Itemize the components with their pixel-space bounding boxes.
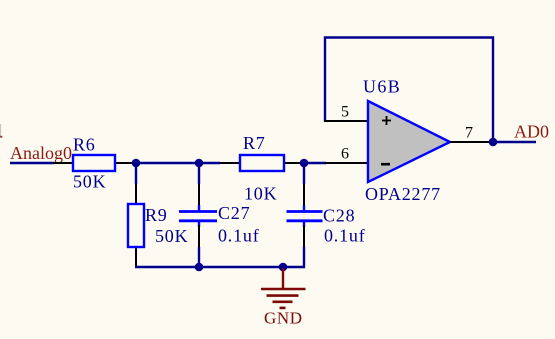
- resistor R7: [220, 155, 304, 171]
- capacitor C27: [179, 184, 217, 248]
- svg-text:C28: C28: [323, 206, 355, 226]
- value 50K (R6): [73, 172, 106, 192]
- wire: [135, 162, 137, 184]
- wire: [198, 162, 200, 184]
- designator C27: [218, 203, 250, 223]
- wire: [198, 247, 200, 268]
- svg-text:5: 5: [341, 104, 349, 121]
- junction C28 top: [300, 159, 309, 168]
- junction C27 bottom: [195, 263, 204, 272]
- svg-text:50K: 50K: [155, 226, 188, 246]
- net label AD0: [514, 122, 549, 142]
- svg-text:6: 6: [341, 146, 349, 163]
- node A junction: [132, 159, 141, 168]
- svg-text:U6B: U6B: [363, 77, 401, 97]
- svg-text:0.1uf: 0.1uf: [324, 226, 366, 246]
- svg-text:C27: C27: [218, 203, 250, 223]
- label GND: [264, 309, 303, 328]
- wire bottom rail: [135, 266, 305, 268]
- wire: [493, 141, 536, 143]
- junction output: [489, 138, 498, 147]
- svg-text:7: 7: [465, 125, 473, 142]
- wire: [136, 162, 220, 164]
- svg-text:0.1uf: 0.1uf: [218, 226, 260, 246]
- pin 7 wire: [450, 141, 493, 143]
- designator R7: [243, 133, 266, 153]
- designator U6B: [363, 77, 401, 97]
- value 0.1uf (C27): [218, 226, 260, 246]
- value 0.1uf (C28): [324, 226, 366, 246]
- svg-text:Analog0: Analog0: [10, 143, 72, 163]
- pin 5 wire: [324, 120, 368, 122]
- svg-text:R7: R7: [243, 133, 266, 153]
- designator C28: [323, 206, 355, 226]
- pin number 7: [465, 125, 473, 142]
- designator R6: [73, 135, 96, 155]
- resistor R9: [128, 184, 144, 267]
- net label Analog0: [10, 143, 72, 163]
- op-amp U6B: [368, 101, 450, 182]
- wire feedback: [325, 38, 493, 143]
- value 10K (R7): [244, 184, 277, 204]
- junction C27 top: [195, 159, 204, 168]
- wire: [303, 247, 305, 268]
- sheet border fragment: [0, 124, 2, 137]
- capacitor C28: [287, 184, 323, 248]
- svg-text:10K: 10K: [244, 184, 277, 204]
- wire: [10, 162, 54, 164]
- svg-text:R6: R6: [73, 135, 96, 155]
- svg-text:GND: GND: [264, 309, 303, 328]
- svg-text:50K: 50K: [73, 172, 106, 192]
- pin number 5: [341, 104, 349, 121]
- value 50K (R9): [155, 226, 188, 246]
- wire: [303, 162, 305, 184]
- ground: [261, 268, 306, 308]
- pin 6 wire: [325, 162, 368, 164]
- junction GND tap: [279, 263, 288, 272]
- part number OPA2277: [365, 184, 441, 204]
- resistor R6: [53, 155, 136, 171]
- svg-text:AD0: AD0: [514, 122, 549, 142]
- pin number 6: [341, 146, 349, 163]
- svg-text:R9: R9: [145, 205, 168, 225]
- designator R9: [145, 205, 168, 225]
- wire: [304, 162, 326, 164]
- svg-text:OPA2277: OPA2277: [365, 184, 441, 204]
